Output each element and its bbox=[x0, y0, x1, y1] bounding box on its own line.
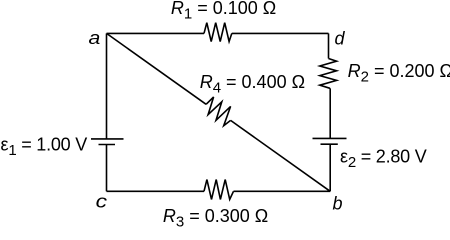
wire right upper (d to R2) bbox=[328, 33, 330, 58]
wire left upper (battery e1 to a) bbox=[106, 33, 108, 138]
resistor R2 bbox=[320, 59, 337, 89]
wire bottom-right (b to R3) bbox=[234, 190, 331, 192]
battery E2 long plate bbox=[313, 137, 347, 139]
svg-text:R4 = 0.400 Ω: R4 = 0.400 Ω bbox=[200, 72, 305, 97]
wire diagonal lower (R4 to b) bbox=[231, 120, 331, 191]
svg-text:c: c bbox=[96, 192, 107, 212]
svg-text:R3 = 0.300 Ω: R3 = 0.300 Ω bbox=[163, 206, 268, 227]
wire top-left (a to R1) bbox=[107, 32, 205, 34]
battery E1 short plate bbox=[99, 144, 116, 146]
svg-text:ε2 = 2.80 V: ε2 = 2.80 V bbox=[340, 146, 427, 171]
wire top-right (R1 to d) bbox=[232, 32, 329, 34]
wire right lower (battery e2 to b) bbox=[329, 144, 331, 191]
svg-text:ε1 = 1.00 V: ε1 = 1.00 V bbox=[1, 134, 88, 159]
svg-text:a: a bbox=[89, 28, 101, 48]
svg-text:R1 = 0.100 Ω: R1 = 0.100 Ω bbox=[171, 0, 276, 23]
battery E2 short plate bbox=[321, 143, 338, 145]
battery E1 long plate bbox=[91, 138, 124, 140]
resistor R3 bbox=[204, 180, 234, 200]
wire bottom-left (R3 to c) bbox=[107, 190, 205, 192]
svg-text:R2 = 0.200 Ω: R2 = 0.200 Ω bbox=[348, 61, 450, 86]
resistor R1 bbox=[204, 23, 232, 42]
svg-text:d: d bbox=[335, 28, 346, 48]
wire right middle (R2 to battery e2) bbox=[329, 88, 331, 138]
svg-text:b: b bbox=[333, 194, 343, 214]
wire diagonal upper (a to R4) bbox=[107, 33, 207, 104]
wire left lower (c to battery e1) bbox=[106, 145, 108, 192]
resistor R4 bbox=[206, 97, 231, 126]
